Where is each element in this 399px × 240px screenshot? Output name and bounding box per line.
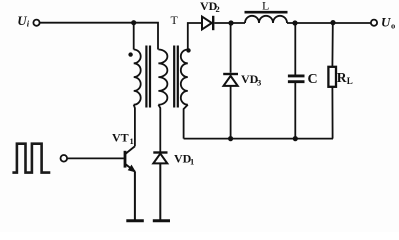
transistor VT1 [125,146,135,171]
node C bottom junction dot [293,136,298,141]
wire VD3 vertical (node to anode/cathode) [230,23,232,139]
svg-text:i: i [27,19,30,29]
svg-text:L: L [347,76,353,86]
label VT1 [112,131,134,147]
drive input terminal [61,155,68,162]
wire N3 bottom riser [184,105,188,139]
label VD1 [174,152,194,167]
wire N1 bottom to collector [134,105,135,147]
node VD3 bottom junction dot [228,136,233,141]
svg-text:VT: VT [112,131,129,145]
wire base drive [67,157,124,159]
wire RL vertical [331,23,333,139]
svg-text:T: T [171,13,179,27]
wire VD1 anode down [159,163,161,219]
svg-text:C: C [308,72,318,87]
label Uo [381,15,395,31]
input terminal (top) [33,20,39,26]
transformer core bars left pair [146,46,150,108]
svg-text:U: U [381,15,391,30]
inductor L [245,12,288,23]
label Ui [17,13,30,29]
ground (emitter) [126,219,144,222]
svg-text:1: 1 [190,157,194,167]
transformer T winding N3 (secondary) [181,50,188,105]
label RL [337,70,353,86]
wire Ui to node A to T primary top [40,23,158,50]
diode VD3 [223,74,238,86]
wire node A down to winding N1 top [133,23,135,50]
svg-text:U: U [17,13,27,28]
wire N3 top to diode VD2 anode [188,23,202,50]
square wave drive symbol [12,144,50,173]
label VD3 [241,72,261,88]
polarity dot N3 [186,48,190,52]
resistor RL body [328,67,336,87]
node A junction dot [131,20,136,25]
node L/C junction dot [292,20,297,25]
transformer core bars right pair [174,46,178,108]
wire L to output terminal [287,22,371,24]
transformer T winding N1 (primary) [134,50,141,105]
polarity dot N1 [128,52,132,56]
ground (VD1) [153,219,170,222]
label VD2 [200,0,220,14]
transformer T winding N2 (demag) [158,50,167,105]
svg-text:1: 1 [130,136,134,146]
svg-text:o: o [391,21,395,31]
wire bottom rail (secondary return) [184,138,333,140]
svg-text:R: R [337,70,347,85]
wire emitter down [134,172,136,220]
wire VD2 cathode to inductor L [214,22,245,24]
svg-text:L: L [262,0,269,13]
svg-text:3: 3 [257,78,261,88]
capacitor C plates [288,76,305,82]
wire capacitor C vertical [294,23,296,139]
wire N2 bottom to diode VD1 [158,105,160,152]
diode VD1 [153,153,167,164]
node VD2/VD3 junction dot [228,20,233,25]
output terminal Uo [371,20,377,26]
diode VD2 [202,16,213,30]
node RL top junction dot [330,20,335,25]
svg-text:2: 2 [216,4,220,14]
